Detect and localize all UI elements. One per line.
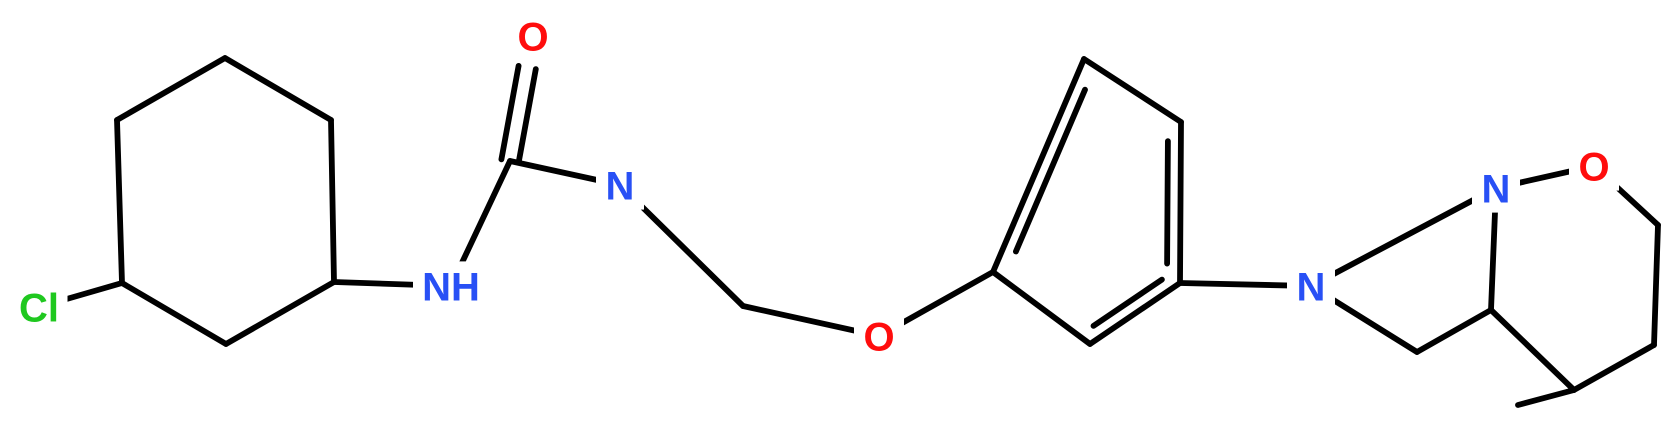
svg-text:O: O — [863, 316, 894, 360]
svg-text:Cl: Cl — [19, 287, 59, 331]
svg-text:NH: NH — [422, 266, 480, 310]
svg-text:O: O — [1578, 146, 1609, 190]
svg-text:O: O — [517, 16, 548, 60]
svg-text:N: N — [1297, 266, 1326, 310]
svg-text:N: N — [1482, 168, 1511, 212]
svg-text:N: N — [606, 165, 635, 209]
